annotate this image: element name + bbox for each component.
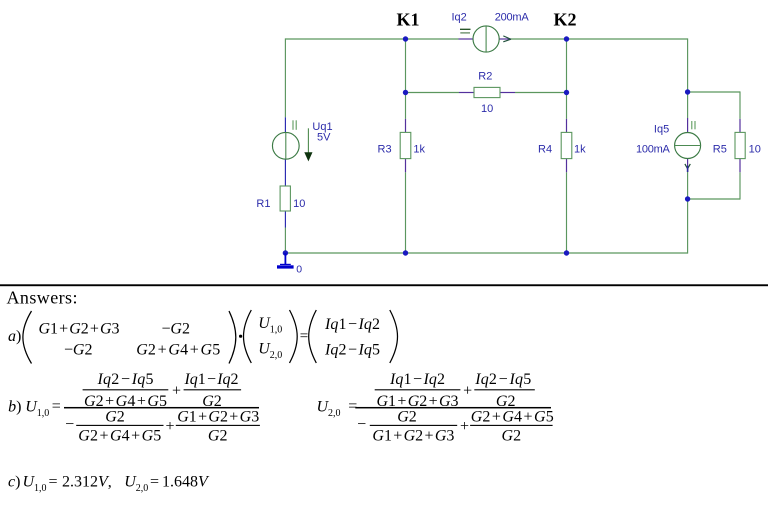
svg-text:Iq5: Iq5 <box>654 124 669 136</box>
svg-text:K2: K2 <box>554 10 577 30</box>
svg-text:G2 + G4 + G5: G2 + G4 + G5 <box>84 393 167 410</box>
svg-text:Iq2 − Iq5: Iq2 − Iq5 <box>97 371 154 388</box>
Iq2 polarity marks <box>460 28 471 30</box>
node K2 dot <box>564 36 569 41</box>
node R2-K1 junction <box>403 90 408 95</box>
node R3 bottom junction <box>403 250 408 255</box>
svg-text:1k: 1k <box>574 143 586 155</box>
pin stub R4 top <box>566 119 568 132</box>
wire K1 node to R3 <box>405 93 407 119</box>
current source Iq5 <box>675 133 701 159</box>
svg-text:G2: G2 <box>202 393 222 410</box>
svg-text:100mA: 100mA <box>636 143 671 155</box>
pin stub Iq5 top <box>687 118 689 133</box>
pin stub R4 bottom <box>566 159 568 173</box>
wire R5 branch top <box>688 91 740 93</box>
voltage source Uq1 <box>272 132 299 159</box>
svg-text:−G2: −G2 <box>161 321 190 338</box>
svg-text:G1 + G2 + G3: G1 + G2 + G3 <box>372 428 454 445</box>
resistor R5 <box>735 132 745 158</box>
wire R2 row left <box>406 92 460 94</box>
svg-text:G1 + G2 + G3: G1 + G2 + G3 <box>39 321 120 338</box>
wire left branch upper (node to Uq1) <box>284 38 286 117</box>
svg-text:2,0: 2,0 <box>328 408 341 419</box>
separator line <box>0 284 768 286</box>
svg-text:c): c) <box>8 474 20 491</box>
svg-text:a): a) <box>8 328 21 345</box>
svg-text:1k: 1k <box>413 143 425 155</box>
wire K2 node to R4 <box>566 93 568 119</box>
svg-text:1.648V: 1.648V <box>162 474 210 491</box>
svg-text:G2 + G4 + G5: G2 + G4 + G5 <box>136 342 220 359</box>
svg-text:=: = <box>49 474 58 491</box>
svg-text:R4: R4 <box>538 143 552 155</box>
resistor R2 <box>474 87 500 97</box>
svg-text:R5: R5 <box>713 144 727 156</box>
svg-text:Iq2: Iq2 <box>452 12 467 24</box>
svg-text:−: − <box>357 416 366 433</box>
pin stub Uq1 bottom <box>284 159 286 186</box>
node ground junction <box>283 250 288 255</box>
pin stub R5 top <box>739 119 741 132</box>
svg-text:=: = <box>348 398 357 415</box>
svg-text:+: + <box>463 383 472 400</box>
svg-text:Iq2 − Iq5: Iq2 − Iq5 <box>474 371 531 388</box>
pin stub Iq5 bottom <box>687 158 689 171</box>
pin stub Iq2 right <box>499 38 511 40</box>
pin stub R2 left <box>459 92 474 94</box>
svg-text:G2: G2 <box>502 428 522 445</box>
node right upper junction <box>685 89 690 94</box>
svg-text:+: + <box>460 418 469 435</box>
svg-text:G2: G2 <box>208 428 228 445</box>
svg-text:G2 + G4 + G5: G2 + G4 + G5 <box>471 409 554 426</box>
svg-text:G2: G2 <box>496 393 516 410</box>
Iq2 current arrow <box>503 36 511 42</box>
svg-text:10: 10 <box>293 198 305 210</box>
resistor R3 <box>400 132 411 158</box>
svg-text:Iq2 − Iq5: Iq2 − Iq5 <box>324 342 380 359</box>
node right lower junction <box>685 196 690 201</box>
svg-text:Iq1 − Iq2: Iq1 − Iq2 <box>184 371 239 388</box>
wire right branch top <box>687 38 689 92</box>
svg-text:G2 + G4 + G5: G2 + G4 + G5 <box>78 428 161 445</box>
svg-text:1,0: 1,0 <box>34 483 47 494</box>
resistor R1 <box>280 186 290 211</box>
svg-text:=: = <box>300 328 308 344</box>
wire top rail from Uq1 branch to Iq2 <box>285 38 458 40</box>
svg-text:1,0: 1,0 <box>37 408 50 419</box>
pin stub R2 right <box>500 92 515 94</box>
svg-text:R2: R2 <box>478 71 492 83</box>
Uq1 voltage arrow <box>307 128 309 153</box>
pin stub R1 bottom <box>284 211 286 228</box>
svg-text:b): b) <box>8 399 21 416</box>
wire K2 column top <box>566 39 568 93</box>
pin stub R3 bottom <box>405 159 407 173</box>
Iq5 polarity marks <box>691 121 693 129</box>
svg-text:2.312V,: 2.312V, <box>62 474 112 491</box>
wire top rail from Iq2 to right branch <box>511 38 688 40</box>
svg-text:G1 + G2 + G3: G1 + G2 + G3 <box>377 393 459 410</box>
svg-text:10: 10 <box>481 103 493 115</box>
ground <box>284 253 286 265</box>
wire R3 to bottom rail <box>405 172 407 253</box>
svg-text:2,0: 2,0 <box>270 350 283 361</box>
svg-text:0: 0 <box>296 264 302 276</box>
svg-text:+: + <box>172 383 181 400</box>
Uq1 polarity marks <box>292 120 294 130</box>
pin stub Uq1 top <box>284 117 286 132</box>
wire Iq5 to lower node <box>687 172 689 200</box>
wire R4 to bottom rail <box>566 172 568 253</box>
svg-text:−: − <box>65 416 74 433</box>
svg-text:R3: R3 <box>378 143 392 155</box>
svg-text:1,0: 1,0 <box>270 324 283 335</box>
svg-text:G1 + G2 + G3: G1 + G2 + G3 <box>177 409 259 426</box>
pin stub R3 top <box>405 119 407 132</box>
svg-text:=: = <box>150 474 159 491</box>
wire right node to Iq5 <box>687 92 689 118</box>
svg-text:K1: K1 <box>397 10 420 30</box>
pin stub R5 bottom <box>739 159 741 173</box>
svg-text:10: 10 <box>749 144 761 156</box>
current source Iq2 <box>473 26 499 52</box>
pin stub Iq2 left <box>459 38 473 40</box>
svg-text:5V: 5V <box>317 132 331 144</box>
wire R2 row right <box>515 92 567 94</box>
svg-text:2,0: 2,0 <box>136 483 149 494</box>
wire R5 branch bottom <box>739 172 741 199</box>
svg-text:G2: G2 <box>397 409 417 426</box>
svg-text:Answers:: Answers: <box>7 288 78 308</box>
svg-text:=: = <box>52 398 61 415</box>
svg-text:200mA: 200mA <box>495 12 530 24</box>
wire K1 column top <box>405 39 407 93</box>
wire bottom rail <box>285 252 687 254</box>
svg-text:Iq1 − Iq2: Iq1 − Iq2 <box>324 316 380 333</box>
node K1 dot <box>403 36 408 41</box>
wire lower node to bottom rail <box>687 199 689 254</box>
Iq5 current arrow <box>685 164 690 169</box>
node R4 bottom junction <box>564 250 569 255</box>
resistor R4 <box>561 132 572 158</box>
wire R1 to ground node <box>284 228 286 254</box>
node R2-K2 junction <box>564 90 569 95</box>
svg-text:−G2: −G2 <box>64 342 93 359</box>
svg-text:+: + <box>165 418 174 435</box>
svg-text:Iq1 − Iq2: Iq1 − Iq2 <box>389 371 445 388</box>
svg-text:G2: G2 <box>105 409 125 426</box>
svg-text:R1: R1 <box>256 198 270 210</box>
